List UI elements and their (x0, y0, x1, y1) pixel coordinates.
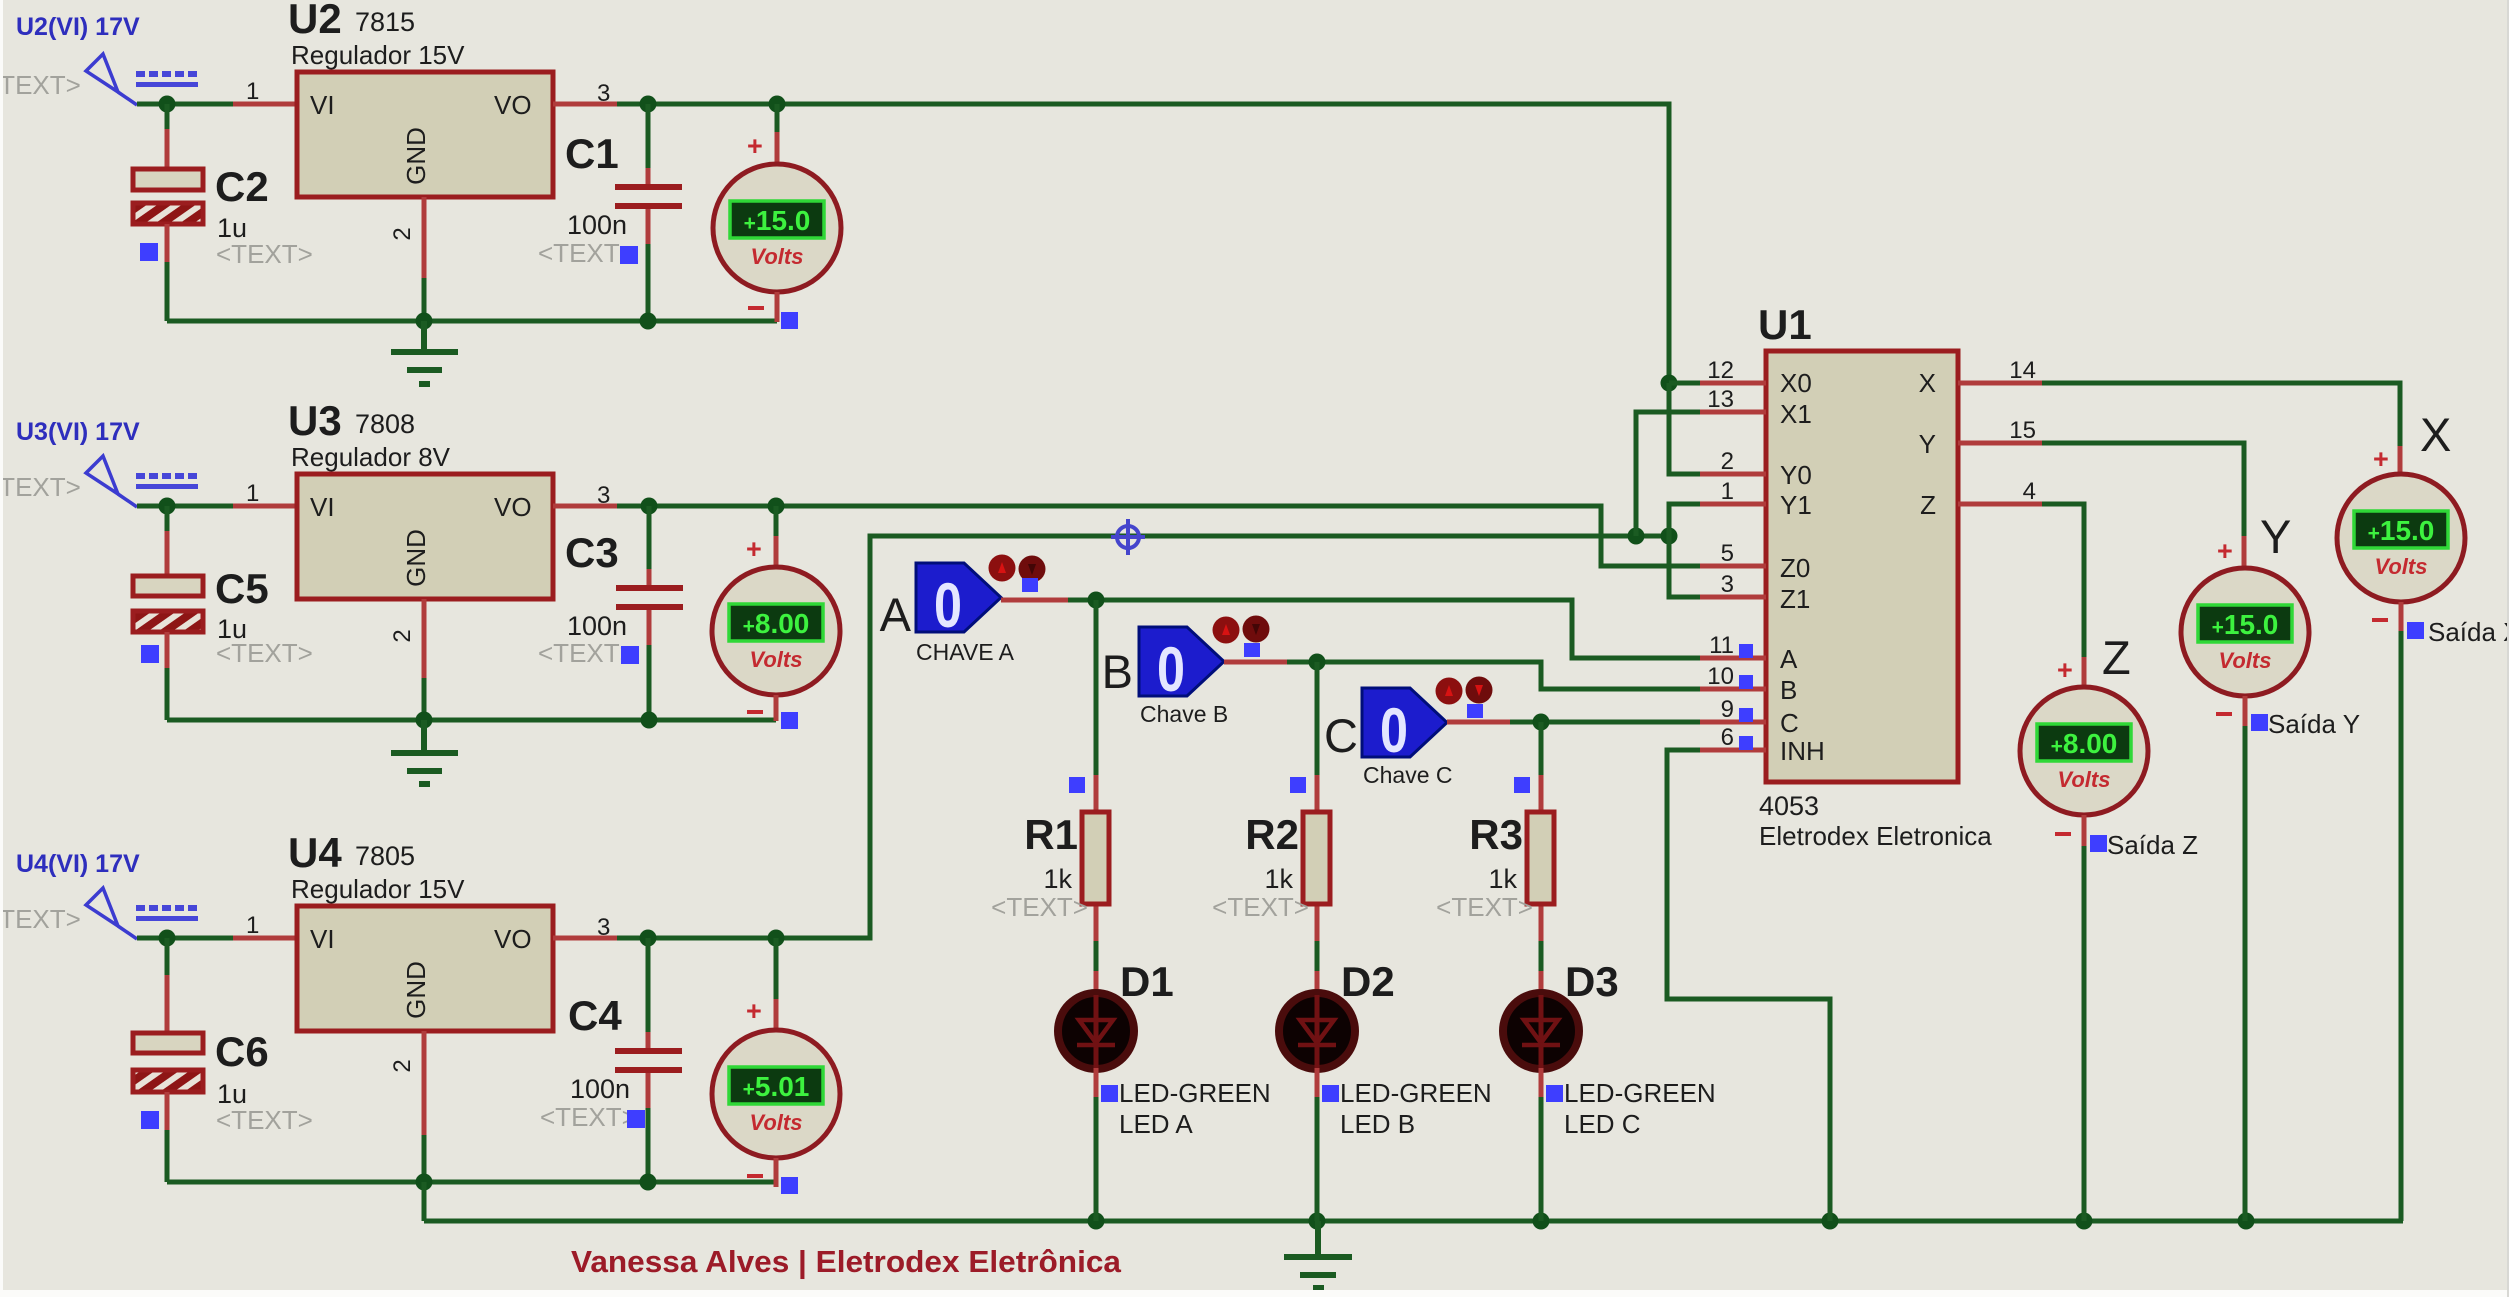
voltmeter X (+15.0) (2398, 446, 2403, 476)
capacitor C4 plates (615, 1048, 682, 1054)
svg-text:0: 0 (1380, 696, 1408, 766)
resistor R1 chain wires (1094, 600, 1099, 777)
capacitor C6 top plate (133, 1033, 203, 1053)
junction gnd pin / rail U3 (416, 712, 433, 729)
C2 wire to rail (165, 262, 170, 321)
svg-text:VI: VI (310, 924, 335, 954)
svg-text:LED-GREEN: LED-GREEN (1564, 1078, 1716, 1108)
D2 handle square (1322, 1085, 1339, 1102)
white page margins (0, 1290, 2509, 1297)
svg-text:1: 1 (246, 912, 259, 939)
pin 3 stub U3 (553, 504, 617, 509)
junction voltmeter M3 top (768, 930, 785, 947)
svg-text:<TEXT>: <TEXT> (0, 472, 81, 502)
svg-text:<TEXT>: <TEXT> (991, 892, 1088, 922)
junction C3 bottom (641, 712, 658, 729)
junction D1 bottom (1088, 1213, 1105, 1230)
svg-text:2: 2 (389, 629, 416, 642)
pin 4 stub Z (1958, 502, 2042, 507)
D3 handle square (1546, 1085, 1563, 1102)
capacitor C2 (polarized) wires (165, 104, 170, 131)
svg-text:X0: X0 (1780, 368, 1812, 398)
svg-text:<TEXT>: <TEXT> (1436, 892, 1533, 922)
C6 handle square (141, 1111, 159, 1129)
capacitor C5 top plate (133, 576, 203, 596)
net name dashes U3 input (136, 473, 198, 489)
svg-text:<TEXT>: <TEXT> (216, 239, 313, 269)
capacitor C3 plates (616, 585, 683, 591)
voltmeter Z (+8.00) (2082, 657, 2087, 689)
R2 handle square (1290, 777, 1306, 793)
junction C1 bottom (640, 313, 657, 330)
svg-text:<TEXT>: <TEXT> (0, 70, 81, 100)
regulator U2 body (297, 72, 553, 197)
wire X meter to rail (2401, 631, 2403, 1221)
svg-text:Chave C: Chave C (1363, 762, 1452, 788)
switch CHAVE A (logicstate) (880, 555, 1046, 666)
svg-text:B: B (1780, 675, 1797, 705)
svg-text:<TEXT>: <TEXT> (540, 1102, 637, 1132)
capacitor C1 wires (646, 104, 651, 170)
main ground rail (424, 1219, 2403, 1224)
svg-text:GND: GND (401, 127, 431, 185)
pin 13 stub X1 (1700, 410, 1766, 415)
svg-text:A: A (1780, 644, 1798, 674)
svg-text:U2(VI) 17V: U2(VI) 17V (16, 13, 140, 41)
svg-text:U4(VI) 17V: U4(VI) 17V (16, 850, 140, 878)
pin 3 stub U4 (553, 936, 617, 941)
switch CHAVE C (logicstate) (1324, 677, 1492, 789)
svg-text:Y1: Y1 (1780, 490, 1812, 520)
wire input to U3 pin1 (137, 504, 233, 509)
svg-text:C1: C1 (565, 130, 619, 177)
wire X0 (1669, 381, 1700, 386)
C5 wire to rail (165, 668, 170, 720)
svg-text:<TEXT>: <TEXT> (1212, 892, 1309, 922)
svg-text:+: + (746, 996, 762, 1026)
input terminal arrow U3 (86, 456, 137, 507)
wire U4 gnd to main rail (422, 1182, 427, 1221)
pin 5 stub Z0 (1700, 564, 1766, 569)
capacitor C4 wires (646, 938, 651, 1034)
ground symbol U2 (391, 321, 458, 384)
wire X output (2042, 383, 2400, 448)
svg-text:3: 3 (597, 914, 610, 941)
svg-text:LED A: LED A (1119, 1109, 1193, 1139)
svg-text:3: 3 (597, 80, 610, 107)
svg-text:1k: 1k (1488, 864, 1517, 894)
pin 14 stub X (1958, 381, 2042, 386)
svg-text:Chave B: Chave B (1140, 701, 1228, 727)
D3 bottom wire (1539, 1068, 1544, 1097)
svg-text:C: C (1780, 708, 1799, 738)
junction gnd pin / rail U4 (416, 1174, 433, 1191)
wire X1 branch (1636, 412, 1700, 536)
R1 handle square (1069, 777, 1085, 793)
wire switch C output (1447, 720, 1510, 725)
U3 ground rail (167, 718, 776, 723)
U2 GND pin 2 stub (422, 197, 427, 278)
svg-text:VO: VO (494, 924, 532, 954)
LED D1 (1058, 993, 1134, 1069)
pin 2 stub Y0 (1700, 472, 1766, 477)
svg-text:Y: Y (2260, 510, 2291, 563)
svg-text:X: X (1919, 368, 1936, 398)
svg-text:1: 1 (246, 78, 259, 105)
voltmeter Y (+15.0) (2242, 536, 2247, 570)
svg-text:Z: Z (2102, 631, 2131, 684)
input terminal arrow U2 (86, 54, 137, 105)
junction C1 top (640, 96, 657, 113)
junction D2/ground (1309, 1213, 1326, 1230)
svg-text:U4: U4 (288, 829, 342, 876)
wire Y meter to rail (2243, 726, 2248, 1221)
svg-text:0: 0 (934, 571, 962, 641)
svg-text:Z0: Z0 (1780, 553, 1810, 583)
svg-text:X1: X1 (1780, 399, 1812, 429)
svg-text:6: 6 (1721, 724, 1734, 751)
svg-text:7808: 7808 (355, 409, 415, 439)
C1 handle square (620, 246, 638, 264)
regulator U4 body (297, 906, 553, 1031)
C3 handle square (621, 646, 639, 664)
svg-text:4: 4 (2023, 478, 2036, 505)
svg-text:1k: 1k (1043, 864, 1072, 894)
svg-text:LED C: LED C (1564, 1109, 1641, 1139)
svg-text:2: 2 (389, 1059, 416, 1072)
svg-text:<TEXT>: <TEXT> (216, 638, 313, 668)
svg-text:+: + (746, 534, 762, 564)
junction X1 branch (1628, 528, 1645, 545)
resistor R1 body (1082, 812, 1109, 904)
wire input to U2 pin1 (137, 102, 233, 107)
svg-text:Eletrodex Eletronica: Eletrodex Eletronica (1759, 821, 1992, 851)
svg-text:C: C (1324, 709, 1358, 762)
svg-text:VO: VO (494, 492, 532, 522)
U3 GND pin 2 stub (422, 599, 427, 678)
svg-text:D3: D3 (1565, 958, 1619, 1005)
C4 handle square (627, 1110, 645, 1128)
C2 handle square (140, 243, 158, 261)
pin 15 stub Y (1958, 441, 2042, 446)
wire switch A output (1001, 598, 1068, 603)
D2 bottom wire (1315, 1068, 1320, 1097)
svg-text:X: X (2420, 408, 2451, 461)
switch CHAVE B (logicstate) (1102, 616, 1270, 728)
svg-text:Regulador 15V: Regulador 15V (291, 874, 465, 904)
svg-text:Vanessa Alves | Eletrodex Elet: Vanessa Alves | Eletrodex Eletrônica (571, 1244, 1122, 1279)
U4 ground rail (167, 1180, 775, 1185)
svg-text:+: + (2057, 655, 2073, 685)
pin 3 stub Z1 (1700, 595, 1766, 600)
svg-text:9: 9 (1721, 696, 1734, 723)
C5 handle square (141, 645, 159, 663)
pin 11 stub A (1700, 656, 1766, 661)
svg-text:Volts: Volts (2219, 648, 2272, 673)
svg-text:GND: GND (401, 961, 431, 1019)
junction gnd pin / rail (416, 313, 433, 330)
svg-text:Z: Z (1920, 490, 1936, 520)
U2 ground rail (167, 319, 777, 324)
junction Y1/Z1 branch (1661, 528, 1678, 545)
svg-text:0: 0 (1157, 635, 1185, 705)
pin 12 stub X0 (1700, 381, 1766, 386)
capacitor C6 bottom plate (hatched) (133, 1070, 203, 1092)
capacitor C2 top plate (133, 169, 203, 190)
svg-text:B: B (1102, 645, 1133, 698)
ground symbol main rail (1284, 1221, 1352, 1288)
svg-text:VI: VI (310, 492, 335, 522)
capacitor C3 wires (647, 506, 652, 571)
junction meter Z minus (2076, 1213, 2093, 1230)
ground symbol U3 (391, 720, 458, 784)
svg-text:LED-GREEN: LED-GREEN (1340, 1078, 1492, 1108)
resistor R2 chain wires (1315, 662, 1320, 777)
wire Z output (2042, 504, 2084, 659)
U4 GND pin 2 stub (422, 1031, 427, 1135)
svg-text:Volts: Volts (751, 244, 804, 269)
wire INH to ground rail (1667, 750, 1830, 1221)
D1 bottom wire (1094, 1068, 1099, 1097)
svg-text:5: 5 (1721, 540, 1734, 567)
svg-text:C5: C5 (215, 565, 269, 612)
svg-text:<TEXT>: <TEXT> (538, 638, 635, 668)
svg-text:13: 13 (1707, 386, 1734, 413)
svg-text:14: 14 (2009, 357, 2036, 384)
wire switch B output (1224, 660, 1287, 665)
U1 body (1766, 351, 1958, 782)
svg-text:GND: GND (401, 529, 431, 587)
svg-text:10: 10 (1707, 663, 1734, 690)
svg-text:2: 2 (1721, 448, 1734, 475)
svg-text:LED B: LED B (1340, 1109, 1415, 1139)
wire input to U4 pin1 (137, 936, 233, 941)
svg-text:C6: C6 (215, 1028, 269, 1075)
svg-text:U3: U3 (288, 397, 342, 444)
svg-text:Regulador 15V: Regulador 15V (291, 40, 465, 70)
voltmeter M2 (+8.00) (774, 506, 779, 538)
svg-text:R2: R2 (1245, 811, 1299, 858)
svg-text:1k: 1k (1264, 864, 1293, 894)
pin 1 stub Y1 (1700, 502, 1766, 507)
pin 1 stub U2 (233, 102, 297, 107)
svg-text:Saída Z: Saída Z (2107, 830, 2198, 860)
svg-text:+: + (747, 131, 763, 161)
capacitor C1 plates (615, 184, 682, 190)
junction meter Y minus (2238, 1213, 2255, 1230)
regulator U3 body (297, 474, 553, 599)
junction D3 bottom (1533, 1213, 1550, 1230)
svg-text:D2: D2 (1341, 958, 1395, 1005)
junction C3 top (641, 498, 658, 515)
pin 9 stub C (1700, 720, 1766, 725)
svg-text:100n: 100n (567, 210, 627, 240)
wire U3 output (+8V to Z0) (617, 506, 1700, 566)
svg-text:<TEXT>: <TEXT> (216, 1105, 313, 1135)
capacitor C5 bottom plate (hatched) (133, 611, 203, 632)
wire Y0 branch (1669, 383, 1700, 474)
LED D2 (1279, 993, 1355, 1069)
net name dashes U2 input (136, 71, 198, 87)
svg-text:CHAVE A: CHAVE A (916, 639, 1015, 665)
junction switch B / R2 (1309, 654, 1326, 671)
svg-text:3: 3 (1721, 571, 1734, 598)
svg-text:Saída X: Saída X (2428, 617, 2509, 647)
svg-text:C4: C4 (568, 992, 622, 1039)
blue marker crosshair (1111, 519, 1145, 555)
C6 bottom stub (165, 1092, 170, 1130)
svg-text:Z1: Z1 (1780, 584, 1810, 614)
svg-text:D1: D1 (1120, 958, 1174, 1005)
pin 10 stub B (1700, 687, 1766, 692)
svg-text:C2: C2 (215, 163, 269, 210)
wire Y output (2042, 443, 2244, 538)
svg-text:7815: 7815 (355, 7, 415, 37)
wire U2 output (+15V rail to U1) (617, 104, 1669, 383)
svg-text:LED-GREEN: LED-GREEN (1119, 1078, 1271, 1108)
junction switch C / R3 (1533, 714, 1550, 731)
svg-text:3: 3 (597, 482, 610, 509)
voltmeter M3 (+5.01) (774, 938, 779, 1001)
svg-text:11: 11 (1709, 632, 1734, 659)
svg-text:A: A (880, 588, 912, 641)
svg-text:+: + (2217, 536, 2233, 566)
D1 handle square (1101, 1085, 1118, 1102)
junction C4 bottom (640, 1174, 657, 1191)
svg-text:4053: 4053 (1759, 791, 1819, 821)
svg-text:INH: INH (1780, 736, 1825, 766)
junction INH branch (1822, 1213, 1839, 1230)
wire U4 output (+5V feed) (617, 536, 1669, 938)
resistor R3 chain wires (1539, 722, 1544, 777)
pin 6 stub INH (1700, 748, 1766, 753)
junction X0 (+15V) (1661, 375, 1678, 392)
pin 1 stub U4 (233, 936, 297, 941)
wire Y1/Z1 branch (1669, 504, 1700, 597)
junction input/C2 (159, 96, 176, 113)
svg-text:U3(VI) 17V: U3(VI) 17V (16, 418, 140, 446)
svg-text:100n: 100n (567, 611, 627, 641)
svg-text:U2: U2 (288, 0, 342, 42)
svg-text:Volts: Volts (750, 1110, 803, 1135)
capacitor C5 (polarized) wires (165, 506, 170, 533)
input terminal arrow U4 (86, 888, 137, 939)
svg-text:7805: 7805 (355, 841, 415, 871)
svg-text:12: 12 (1707, 357, 1734, 384)
junction voltmeter M2 top (768, 498, 785, 515)
capacitor C6 (polarized) wires (165, 938, 170, 977)
voltmeter M1 (+15.0) (775, 104, 780, 134)
svg-text:Volts: Volts (2375, 554, 2428, 579)
C6 wire to rail (165, 1130, 170, 1182)
resistor R2 body (1303, 812, 1330, 904)
svg-text:VO: VO (494, 90, 532, 120)
C2 bottom stub (165, 224, 170, 262)
svg-text:1: 1 (246, 480, 259, 507)
R3 handle square (1514, 777, 1530, 793)
svg-text:Regulador 8V: Regulador 8V (291, 442, 451, 472)
svg-text:Saída Y: Saída Y (2268, 709, 2360, 739)
svg-text:100n: 100n (570, 1074, 630, 1104)
capacitor C2 bottom plate (hatched) (133, 203, 203, 224)
junction input/C6 (159, 930, 176, 947)
wire Z meter to rail (2082, 846, 2087, 1221)
svg-text:<TEXT>: <TEXT> (0, 904, 81, 934)
svg-text:U1: U1 (1758, 301, 1812, 348)
resistor R3 body (1527, 812, 1554, 904)
svg-text:15: 15 (2009, 417, 2036, 444)
svg-text:R3: R3 (1469, 811, 1523, 858)
junction voltmeter M1 top (769, 96, 786, 113)
junction C4 top (640, 930, 657, 947)
svg-text:Y0: Y0 (1780, 460, 1812, 490)
svg-text:+: + (2373, 444, 2389, 474)
svg-text:Y: Y (1919, 429, 1936, 459)
svg-text:VI: VI (310, 90, 335, 120)
svg-text:2: 2 (389, 227, 416, 240)
svg-text:1: 1 (1721, 478, 1734, 505)
svg-text:C3: C3 (565, 529, 619, 576)
C5 bottom stub (165, 632, 170, 668)
svg-text:Volts: Volts (750, 647, 803, 672)
net name dashes U4 input (136, 905, 198, 921)
pin 3 stub U2 (553, 102, 617, 107)
svg-text:Volts: Volts (2058, 767, 2111, 792)
pin 1 stub U3 (233, 504, 297, 509)
LED D3 (1503, 993, 1579, 1069)
svg-text:R1: R1 (1024, 811, 1078, 858)
junction switch A / R1 (1088, 592, 1105, 609)
junction input/C5 (159, 498, 176, 515)
